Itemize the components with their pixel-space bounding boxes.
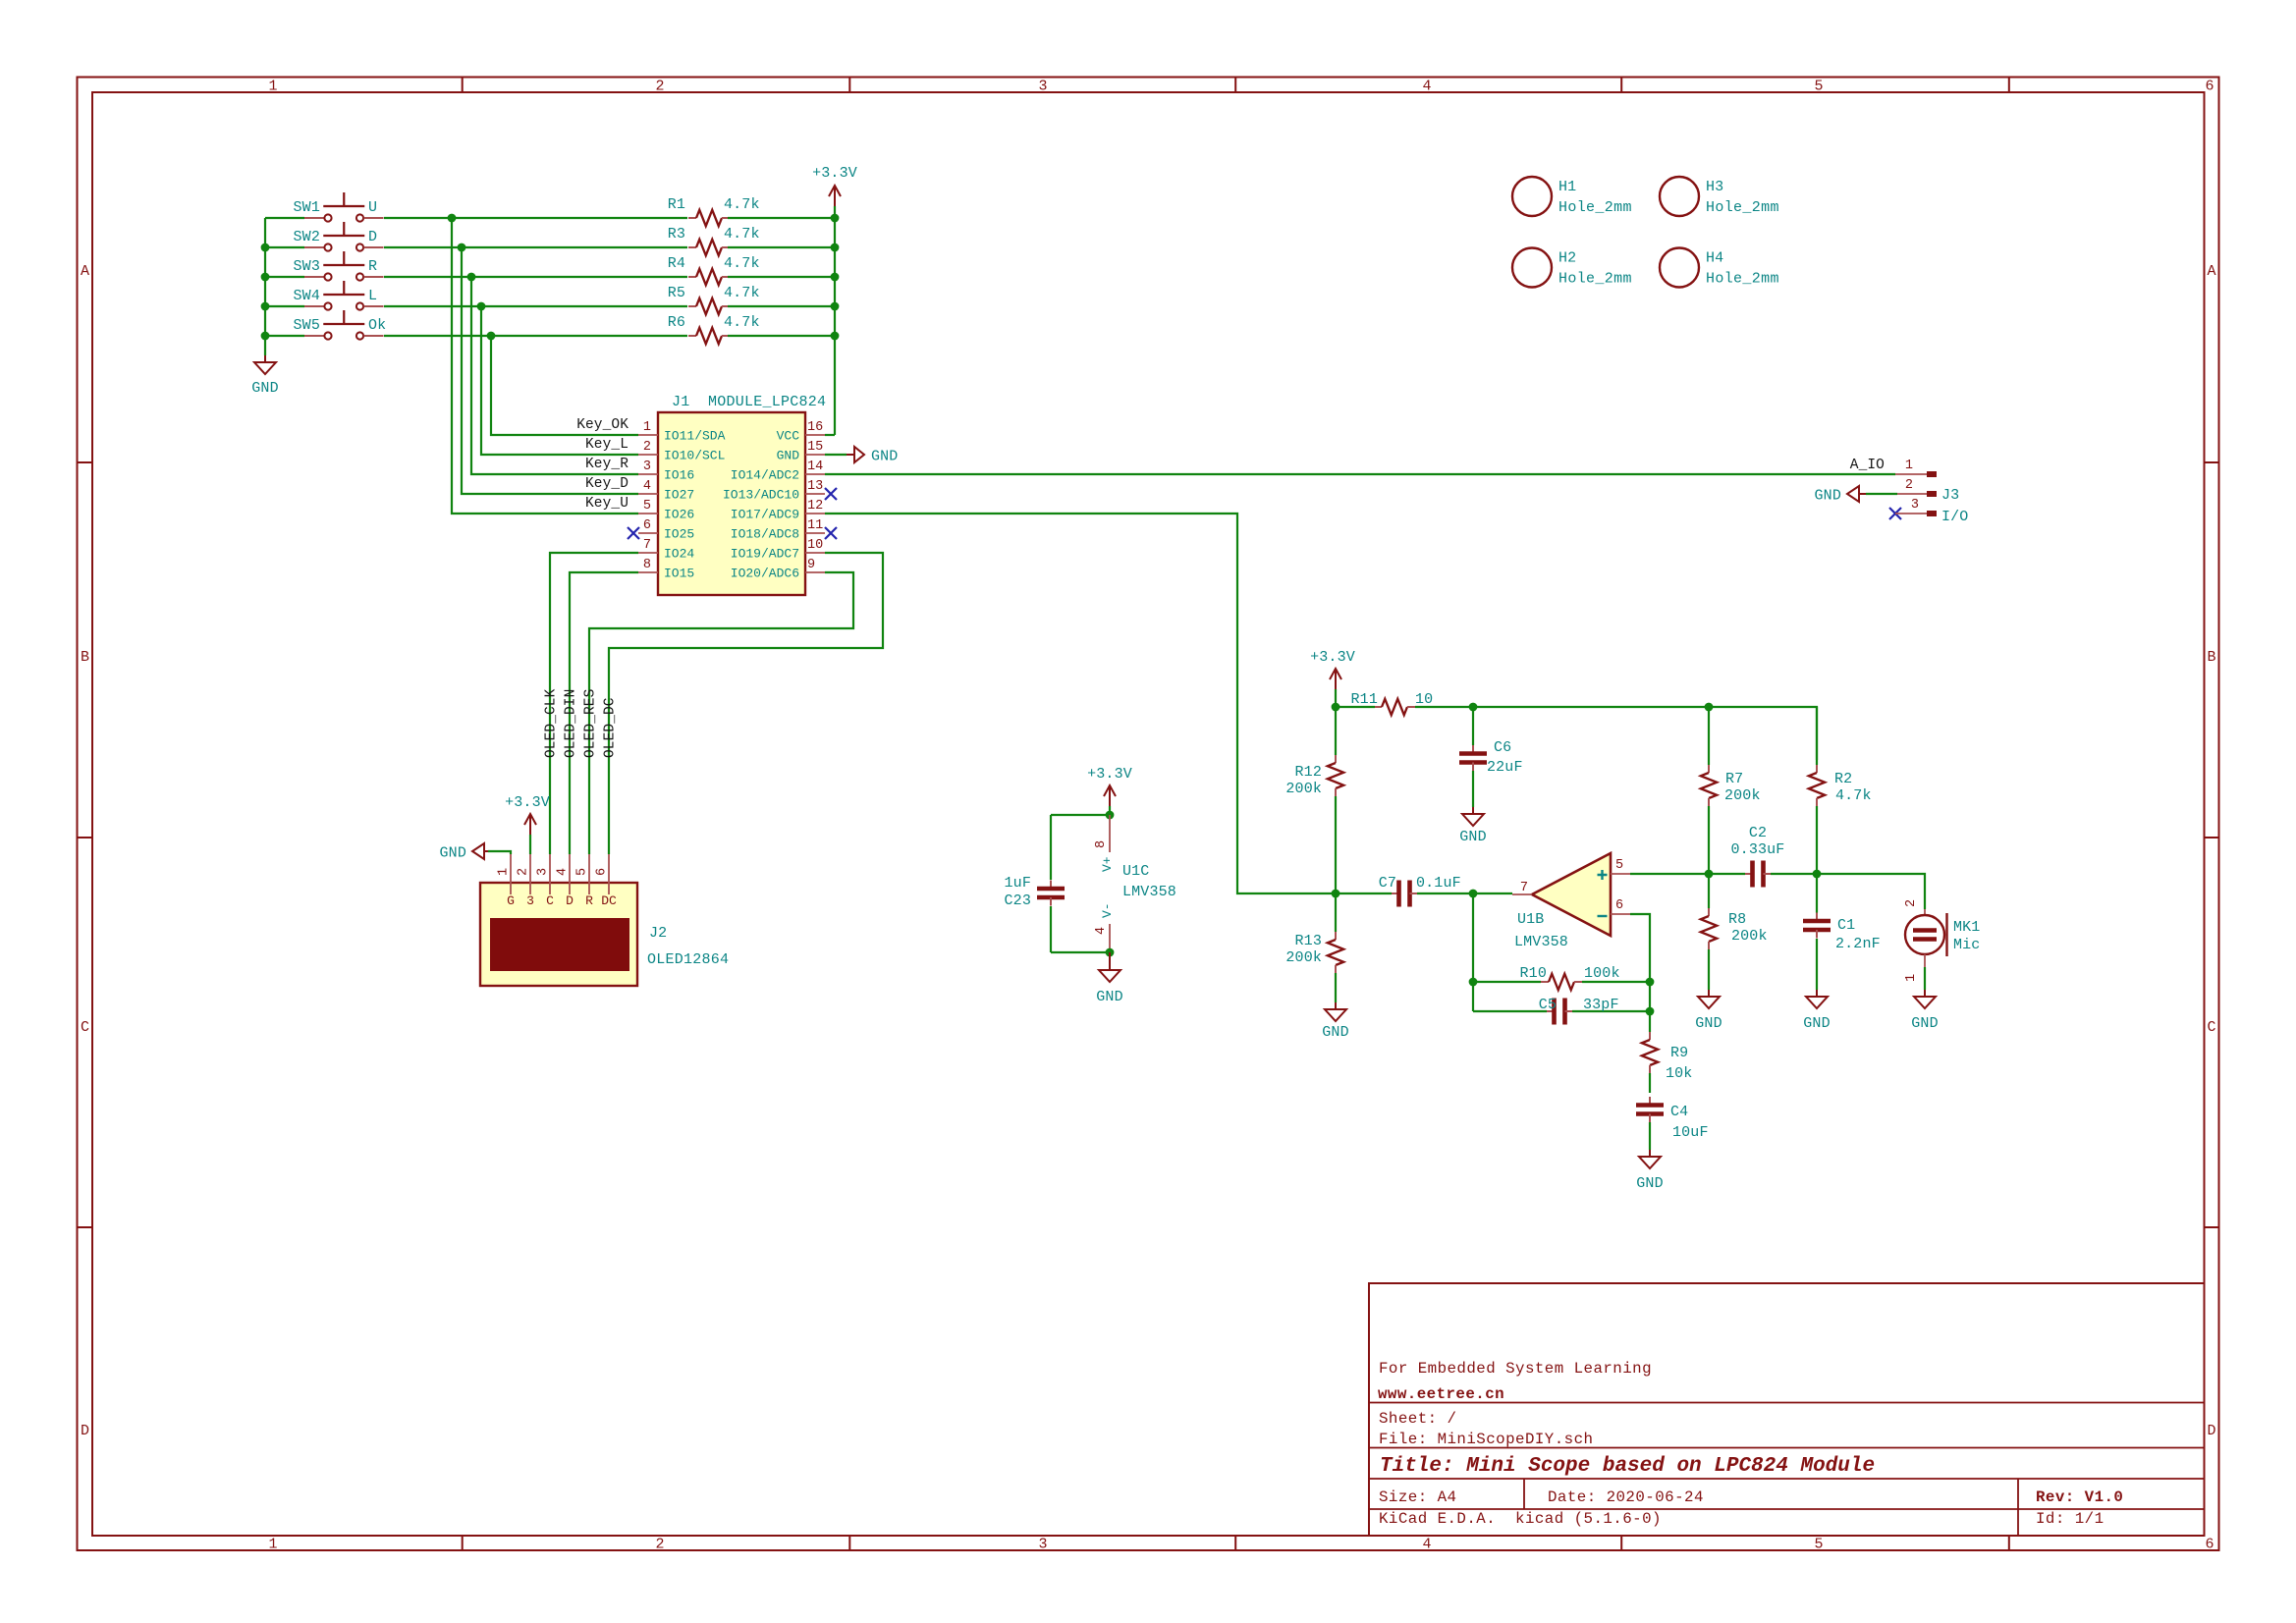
svg-text:R12: R12 — [1295, 764, 1322, 781]
svg-text:File: MiniScopeDIY.sch: File: MiniScopeDIY.sch — [1379, 1431, 1593, 1448]
svg-text:100k: 100k — [1584, 965, 1620, 982]
wire J1 pin9 to OLED_RES — [589, 572, 853, 854]
J1 pin 6 (left) — [638, 532, 658, 534]
svg-text:R8: R8 — [1728, 911, 1746, 928]
wire switch row SW2 left — [265, 246, 304, 248]
svg-text:2: 2 — [517, 868, 531, 876]
svg-text:Sheet: /: Sheet: / — [1379, 1410, 1456, 1428]
J1 pin 12 (right) — [805, 513, 825, 514]
wire op-amp pin6 to feedback — [1630, 914, 1650, 1011]
svg-text:IO16: IO16 — [664, 468, 694, 483]
junction R10 right — [1646, 978, 1655, 987]
switch SW1 — [304, 217, 324, 219]
svg-text:R6: R6 — [668, 314, 685, 331]
wire J1 pin7 to OLED_CLK — [550, 553, 638, 854]
power +3.3V J2 pin2 — [529, 814, 531, 835]
svg-text:R: R — [585, 893, 593, 908]
ground GND R13 — [1335, 1002, 1337, 1009]
wire J1 pin14 to J3 pin1 (A_IO net) — [825, 473, 1895, 475]
svg-text:GND: GND — [1695, 1015, 1722, 1032]
svg-text:5: 5 — [643, 499, 651, 514]
svg-text:11: 11 — [807, 518, 823, 533]
capacitor C1 2.2nF — [1816, 874, 1818, 913]
ground GND C4 — [1649, 1150, 1651, 1157]
svg-text:1: 1 — [268, 79, 277, 95]
junction switch output SW1 — [448, 214, 457, 223]
wire C23 bottom to U1C bottom — [1051, 951, 1110, 953]
J1 pin 3 (left) — [638, 473, 658, 475]
svg-text:15: 15 — [807, 440, 823, 455]
junction R11 left — [1332, 703, 1340, 712]
J1 pin 16 (right) — [805, 434, 825, 436]
svg-text:C: C — [546, 893, 554, 908]
wire C7 to op-amp pin7 — [1473, 893, 1512, 894]
connector J2 OLED12864 body — [480, 883, 637, 986]
wire R11 left lead — [1336, 706, 1375, 708]
svg-text:1: 1 — [268, 1537, 277, 1553]
ground GND left bus — [264, 355, 266, 362]
svg-text:IO15: IO15 — [664, 567, 694, 581]
svg-text:+3.3V: +3.3V — [505, 794, 550, 811]
svg-text:Size: A4: Size: A4 — [1379, 1488, 1456, 1506]
J2 pin 3 — [549, 854, 551, 894]
svg-text:C4: C4 — [1670, 1104, 1688, 1120]
svg-text:For Embedded System Learning: For Embedded System Learning — [1379, 1360, 1652, 1378]
wire R4 to +3.3V bus — [728, 276, 835, 278]
capacitor C6 22uF — [1472, 707, 1474, 745]
wire switch row SW3 left — [265, 276, 304, 278]
svg-text:3: 3 — [643, 460, 651, 474]
wire switch row SW1 to resistor — [384, 217, 687, 219]
junction +3.3V bus row R3 — [831, 243, 840, 252]
connector J3 pin 1 — [1895, 473, 1927, 475]
J1 pin 4 (left) — [638, 493, 658, 495]
J1 pin 7 (left) — [638, 552, 658, 554]
svg-text:Mic: Mic — [1953, 937, 1980, 953]
J2 pin 4 — [569, 854, 571, 894]
svg-text:4: 4 — [1422, 79, 1431, 95]
svg-text:4.7k: 4.7k — [1835, 787, 1872, 804]
wire +3.3V to J2 pin2 — [529, 835, 531, 854]
junction C7 right — [1469, 890, 1478, 898]
svg-text:D: D — [566, 893, 574, 908]
svg-text:0.33uF: 0.33uF — [1731, 841, 1785, 858]
svg-text:2.2nF: 2.2nF — [1835, 936, 1881, 952]
svg-text:Key_OK: Key_OK — [576, 417, 629, 433]
J1 pin 11 (right) — [805, 532, 825, 534]
U1B pin 7 (output) — [1512, 893, 1532, 895]
capacitor C2 0.33uF — [1709, 873, 1745, 875]
microphone MK1 Mic — [1924, 909, 1926, 915]
junction switch output SW2 — [458, 243, 466, 252]
svg-text:U: U — [368, 199, 377, 216]
J1 pin 14 (right) — [805, 473, 825, 475]
svg-text:OLED_DC: OLED_DC — [603, 697, 619, 758]
junction R7 top — [1705, 703, 1714, 712]
svg-text:1: 1 — [1904, 974, 1919, 982]
wire SW3 down to J1 — [471, 277, 638, 474]
wire GND flag to J3 pin2 — [1866, 493, 1897, 495]
svg-text:+3.3V: +3.3V — [1087, 766, 1132, 783]
title block frame — [1369, 1283, 2205, 1536]
svg-text:SW3: SW3 — [294, 258, 320, 275]
wire feedback node down — [1472, 893, 1474, 1011]
connector J3 pin 3 — [1895, 513, 1927, 514]
ground GND C6 — [1472, 807, 1474, 814]
svg-text:IO24: IO24 — [664, 547, 694, 562]
svg-text:R4: R4 — [668, 255, 685, 272]
resistor R8 200k — [1708, 874, 1710, 908]
wire J1 pin12 to amplifier input — [825, 514, 1336, 893]
op-amp U1C power pins — [1109, 815, 1111, 852]
svg-text:4: 4 — [643, 479, 651, 494]
wire R11 to C6 node — [1415, 706, 1473, 708]
J1 pin 5 (left) — [638, 513, 658, 514]
J1 pin 9 (right) — [805, 571, 825, 573]
resistor R7 200k — [1708, 707, 1710, 765]
svg-text:GND: GND — [777, 449, 800, 463]
resistor R2 4.7k — [1816, 707, 1818, 765]
svg-text:4.7k: 4.7k — [724, 226, 760, 243]
svg-text:V-: V- — [1100, 902, 1115, 918]
J2 pin 6 — [608, 854, 610, 894]
svg-text:B: B — [2207, 649, 2215, 666]
ground GND C1 — [1816, 990, 1818, 997]
svg-text:DC: DC — [601, 893, 617, 908]
svg-text:6: 6 — [1615, 898, 1623, 913]
svg-text:1uF: 1uF — [1005, 875, 1031, 892]
ground GND U1C — [1109, 952, 1111, 970]
junction left bus row SW4 — [261, 302, 270, 311]
svg-text:6: 6 — [2205, 79, 2214, 95]
resistor R6 4.7k — [688, 335, 696, 337]
svg-text:200k: 200k — [1285, 781, 1322, 797]
power +3.3V amplifier — [1335, 669, 1337, 689]
svg-text:3: 3 — [1911, 498, 1919, 513]
no-connect X J3 pin 3 — [1889, 508, 1901, 519]
mounting hole H2 — [1512, 248, 1552, 288]
svg-text:www.eetree.cn: www.eetree.cn — [1378, 1385, 1504, 1403]
power flag GND J2 — [472, 843, 484, 859]
svg-text:SW1: SW1 — [294, 199, 320, 216]
svg-text:16: 16 — [807, 420, 823, 435]
svg-text:C: C — [2207, 1019, 2215, 1036]
svg-text:6: 6 — [643, 518, 651, 533]
wire SW2 down to J1 — [462, 247, 638, 494]
svg-text:4.7k: 4.7k — [724, 196, 760, 213]
svg-text:R13: R13 — [1295, 933, 1322, 949]
mounting hole H1 — [1512, 177, 1552, 216]
svg-text:I/O: I/O — [1941, 509, 1968, 525]
svg-text:14: 14 — [807, 460, 823, 474]
op-amp U1B LMV358 triangle — [1532, 853, 1611, 936]
wire +3.3V bus down to J1 VCC — [834, 206, 836, 435]
wire J1 pin8 to OLED_DIN — [570, 572, 638, 854]
svg-text:GND: GND — [871, 449, 898, 465]
svg-text:12: 12 — [807, 499, 823, 514]
junction C5 right — [1646, 1007, 1655, 1016]
svg-text:R3: R3 — [668, 226, 685, 243]
J1 pin 15 (right) — [805, 454, 825, 456]
wire top rail R7 to R2 — [1709, 707, 1817, 760]
svg-text:GND: GND — [1636, 1175, 1663, 1192]
wire left GND bus — [264, 218, 266, 336]
svg-text:7: 7 — [643, 538, 651, 553]
svg-text:IO13/ADC10: IO13/ADC10 — [723, 488, 799, 503]
wire switch row SW1 left — [265, 217, 304, 219]
svg-text:SW5: SW5 — [294, 317, 320, 334]
svg-text:H3: H3 — [1706, 179, 1723, 195]
wire switch row SW5 left — [265, 335, 304, 337]
svg-text:IO14/ADC2: IO14/ADC2 — [731, 468, 799, 483]
resistor R13 200k — [1335, 893, 1337, 932]
U1B pin 5 (+) — [1611, 873, 1630, 875]
svg-text:SW2: SW2 — [294, 229, 320, 245]
junction +3.3V bus row R6 — [831, 332, 840, 341]
svg-text:U1B: U1B — [1517, 911, 1544, 928]
svg-text:10: 10 — [1415, 691, 1433, 708]
switch SW3 — [304, 276, 324, 278]
wire switch row SW2 to resistor — [384, 246, 687, 248]
svg-text:IO25: IO25 — [664, 527, 694, 542]
svg-text:U1C: U1C — [1122, 863, 1149, 880]
svg-text:IO19/ADC7: IO19/ADC7 — [731, 547, 799, 562]
svg-text:R7: R7 — [1725, 771, 1743, 787]
svg-text:GND: GND — [1803, 1015, 1830, 1032]
svg-text:IO27: IO27 — [664, 488, 694, 503]
wire R5 to +3.3V bus — [728, 305, 835, 307]
svg-text:Ok: Ok — [368, 317, 386, 334]
J2 OLED screen — [490, 918, 629, 971]
svg-text:13: 13 — [807, 479, 823, 494]
svg-text:MK1: MK1 — [1953, 919, 1980, 936]
svg-text:SW4: SW4 — [294, 288, 320, 304]
ground GND MK1 — [1924, 990, 1926, 997]
J1 pin 8 (left) — [638, 571, 658, 573]
junction +3.3V bus row R1 — [831, 214, 840, 223]
wire C2 node to MK1 — [1817, 874, 1925, 909]
resistor R11 10 — [1374, 706, 1382, 708]
capacitor C23 1uF — [1050, 815, 1052, 880]
svg-text:4.7k: 4.7k — [724, 314, 760, 331]
svg-text:A_IO: A_IO — [1850, 458, 1885, 473]
switch SW4 — [304, 305, 324, 307]
svg-text:H2: H2 — [1558, 250, 1576, 267]
svg-text:OLED_CLK: OLED_CLK — [544, 688, 560, 758]
mounting hole H4 — [1660, 248, 1699, 288]
svg-text:10: 10 — [807, 538, 823, 553]
svg-text:C1: C1 — [1837, 917, 1855, 934]
svg-text:1: 1 — [643, 420, 651, 435]
svg-text:R5: R5 — [668, 285, 685, 301]
svg-text:5: 5 — [575, 868, 590, 876]
svg-text:200k: 200k — [1285, 949, 1322, 966]
svg-text:A: A — [2207, 263, 2215, 280]
svg-text:GND: GND — [440, 845, 466, 862]
wire U1C top to C23 — [1051, 814, 1110, 816]
resistor R9 10k — [1649, 1011, 1651, 1032]
svg-text:3: 3 — [1038, 1537, 1047, 1553]
J2 pin 2 — [529, 854, 531, 894]
wire R3 to +3.3V bus — [728, 246, 835, 248]
junction switch output SW3 — [467, 273, 476, 282]
junction left bus row SW3 — [261, 273, 270, 282]
wire J1 pin15 to GND flag — [825, 454, 847, 456]
ground GND R8 — [1708, 990, 1710, 997]
wire SW5 down to J1 — [491, 336, 638, 435]
svg-text:C: C — [81, 1019, 89, 1036]
svg-text:OLED_RES: OLED_RES — [583, 689, 599, 758]
svg-text:LMV358: LMV358 — [1122, 884, 1176, 900]
svg-text:Key_D: Key_D — [585, 476, 629, 492]
connector J1 MODULE_LPC824 body — [658, 412, 805, 595]
svg-text:B: B — [81, 649, 89, 666]
svg-text:9: 9 — [807, 558, 815, 572]
wire MK1 pin1 to GND — [1924, 967, 1926, 990]
svg-text:Key_R: Key_R — [585, 457, 629, 472]
svg-text:200k: 200k — [1724, 787, 1761, 804]
svg-text:R2: R2 — [1834, 771, 1852, 787]
svg-text:IO17/ADC9: IO17/ADC9 — [731, 508, 799, 522]
svg-text:L: L — [368, 288, 377, 304]
svg-text:GND: GND — [1815, 488, 1841, 505]
svg-text:J2: J2 — [649, 925, 667, 942]
svg-text:6: 6 — [595, 868, 610, 876]
junction C2 right — [1813, 870, 1822, 879]
power +3.3V U1C — [1109, 785, 1111, 806]
svg-text:Hole_2mm: Hole_2mm — [1706, 271, 1779, 288]
svg-text:4.7k: 4.7k — [724, 255, 760, 272]
svg-text:6: 6 — [2205, 1537, 2214, 1553]
no-connect X pin 11 — [825, 527, 837, 539]
junction R7 bottom — [1705, 870, 1714, 879]
U1B pin 6 (-) — [1611, 913, 1630, 915]
wire R6 to +3.3V bus — [728, 335, 835, 337]
svg-text:Date: 2020-06-24: Date: 2020-06-24 — [1548, 1488, 1704, 1506]
svg-text:A: A — [81, 263, 89, 280]
resistor R12 200k — [1335, 707, 1337, 755]
resistor R5 4.7k — [688, 305, 696, 307]
svg-text:IO10/SCL: IO10/SCL — [664, 449, 725, 463]
svg-text:C5: C5 — [1539, 997, 1557, 1013]
J2 pin 5 — [588, 854, 590, 894]
resistor R10 100k — [1473, 981, 1541, 983]
svg-text:2: 2 — [655, 1537, 664, 1553]
wire +3.3V to R11 node — [1335, 689, 1337, 707]
svg-text:IO26: IO26 — [664, 508, 694, 522]
wire top rail C6 to R7 — [1473, 706, 1709, 708]
svg-text:G: G — [507, 893, 515, 908]
svg-text:Key_U: Key_U — [585, 496, 629, 512]
svg-text:33pF: 33pF — [1583, 997, 1619, 1013]
J1 pin 13 (right) — [805, 493, 825, 495]
svg-text:Rev: V1.0: Rev: V1.0 — [2036, 1488, 2123, 1506]
J1 pin 10 (right) — [805, 552, 825, 554]
junction U1C bottom — [1106, 948, 1115, 957]
junction +3.3V bus row R4 — [831, 273, 840, 282]
svg-text:3: 3 — [536, 868, 551, 876]
svg-text:R1: R1 — [668, 196, 685, 213]
svg-text:8: 8 — [643, 558, 651, 572]
svg-text:GND: GND — [1459, 829, 1486, 845]
svg-text:GND: GND — [1911, 1015, 1938, 1032]
svg-text:Title: Mini Scope based on LPC: Title: Mini Scope based on LPC824 Module — [1380, 1455, 1875, 1478]
svg-text:C6: C6 — [1494, 739, 1511, 756]
power +3.3V top rail — [834, 186, 836, 206]
svg-text:OLED_DIN: OLED_DIN — [564, 689, 579, 758]
svg-text:H1: H1 — [1558, 179, 1576, 195]
svg-text:10uF: 10uF — [1672, 1124, 1709, 1141]
svg-text:+3.3V: +3.3V — [812, 165, 857, 182]
svg-text:5: 5 — [1814, 79, 1823, 95]
svg-text:R10: R10 — [1520, 965, 1547, 982]
svg-text:Hole_2mm: Hole_2mm — [1558, 271, 1632, 288]
wire J2 pin1 to GND flag — [488, 851, 511, 854]
svg-text:J3: J3 — [1941, 487, 1959, 504]
svg-text:2: 2 — [1905, 478, 1913, 493]
svg-text:D: D — [2207, 1423, 2215, 1439]
svg-text:Hole_2mm: Hole_2mm — [1706, 199, 1779, 216]
wire SW1 down to J1 — [452, 218, 638, 514]
svg-text:IO20/ADC6: IO20/ADC6 — [731, 567, 799, 581]
column tick marks — [462, 78, 464, 93]
junction +3.3V bus row R5 — [831, 302, 840, 311]
wire switch row SW4 to resistor — [384, 305, 687, 307]
svg-text:2: 2 — [643, 440, 651, 455]
wire switch row SW5 to resistor — [384, 335, 687, 337]
svg-text:V+: V+ — [1100, 856, 1115, 872]
svg-text:IO11/SDA: IO11/SDA — [664, 429, 726, 444]
svg-text:H4: H4 — [1706, 250, 1723, 267]
junction amplifier input node — [1332, 890, 1340, 898]
switch SW5 — [304, 335, 324, 337]
power flag GND pin15 — [847, 454, 854, 456]
svg-text:Id: 1/1: Id: 1/1 — [2036, 1510, 2105, 1528]
svg-text:5: 5 — [1814, 1537, 1823, 1553]
svg-text:D: D — [368, 229, 377, 245]
svg-text:10k: 10k — [1666, 1065, 1692, 1082]
wire SW4 down to J1 — [481, 306, 638, 455]
svg-text:C2: C2 — [1749, 825, 1767, 841]
svg-text:+3.3V: +3.3V — [1310, 649, 1355, 666]
svg-text:4.7k: 4.7k — [724, 285, 760, 301]
svg-text:OLED12864: OLED12864 — [647, 951, 729, 968]
wire R1 to +3.3V bus — [728, 217, 835, 219]
switch SW2 — [304, 246, 324, 248]
svg-text:5: 5 — [1615, 858, 1623, 873]
svg-text:8: 8 — [1094, 840, 1109, 848]
power flag GND J3 — [1847, 486, 1859, 502]
svg-text:200k: 200k — [1731, 928, 1768, 945]
svg-text:0.1uF: 0.1uF — [1416, 875, 1461, 892]
junction switch output SW4 — [477, 302, 486, 311]
J1 pin 2 (left) — [638, 454, 658, 456]
svg-text:Key_L: Key_L — [585, 437, 629, 453]
svg-text:GND: GND — [1322, 1024, 1348, 1041]
svg-text:22uF: 22uF — [1487, 759, 1523, 776]
svg-text:D: D — [81, 1423, 89, 1439]
row tick marks — [78, 461, 93, 463]
capacitor C7 0.1uF — [1336, 893, 1392, 894]
no-connect X pin 13 — [825, 488, 837, 500]
resistor R3 4.7k — [688, 246, 696, 248]
svg-text:4: 4 — [556, 868, 571, 876]
connector J3 pin 2 — [1897, 493, 1927, 495]
wire switch row SW4 left — [265, 305, 304, 307]
svg-text:C7: C7 — [1379, 875, 1396, 892]
capacitor C4 10uF — [1649, 1097, 1651, 1106]
svg-text:7: 7 — [1520, 881, 1528, 895]
